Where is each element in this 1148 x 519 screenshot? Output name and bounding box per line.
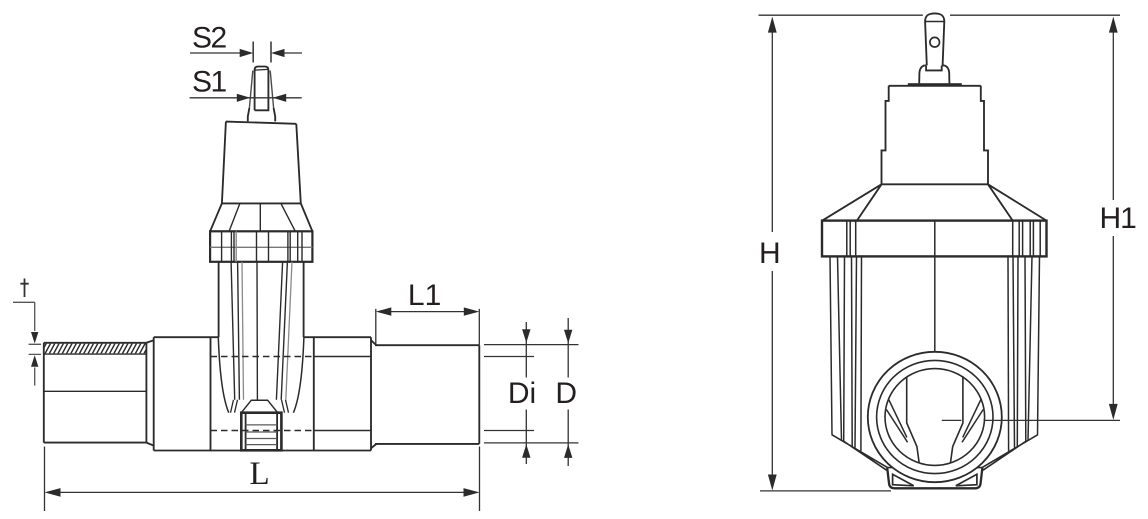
svg-text:Di: Di	[508, 377, 536, 410]
svg-text:H: H	[759, 237, 781, 270]
svg-text:H1: H1	[1100, 202, 1137, 235]
svg-text:L: L	[250, 456, 270, 492]
svg-text:S1: S1	[192, 66, 227, 99]
svg-text:L1: L1	[408, 279, 441, 312]
svg-text:D: D	[555, 377, 577, 410]
svg-text:S2: S2	[192, 22, 227, 55]
